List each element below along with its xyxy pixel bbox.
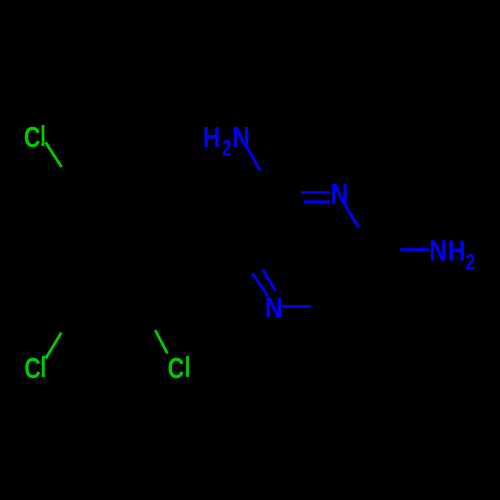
double bond C2=N1 inner line (blue half) [304, 200, 330, 203]
bond C2'-Cl (bottom-middle chlorine, green half) [155, 330, 167, 353]
svg-text:H: H [203, 121, 220, 153]
double bond C3=N4 main line (blue half) [252, 273, 267, 295]
double bond C3=N4 inner line (blue half) [263, 269, 276, 291]
bond H2N-C2 (blue half) [246, 146, 260, 170]
double bond C2=N1 main line (blue half) [301, 191, 330, 194]
bond C6-NH2 (blue half) [400, 248, 429, 251]
svg-text:H: H [448, 235, 466, 267]
svg-text:2: 2 [222, 137, 231, 161]
svg-text:C: C [168, 354, 185, 385]
bond N4-C5 (blue half) [282, 305, 311, 308]
atom label Cl bottom-left [24, 354, 45, 385]
bond C5'-Cl (top-left chlorine, green half) [46, 142, 62, 167]
atom label NH2 (amine on C6) [429, 235, 475, 275]
bond N1-C6 (blue half) [344, 204, 358, 228]
svg-text:2: 2 [465, 251, 475, 275]
svg-text:N: N [429, 235, 447, 267]
atom label Cl bottom-middle [168, 354, 189, 385]
svg-text:C: C [24, 354, 41, 385]
svg-text:N: N [232, 121, 250, 153]
atom label H2N (amine on C2) [203, 121, 250, 161]
atom label Cl top-left [24, 123, 44, 154]
svg-text:C: C [24, 123, 41, 154]
bond C3'-Cl (bottom-left chlorine, green half) [46, 333, 62, 359]
svg-text:N: N [265, 292, 283, 324]
